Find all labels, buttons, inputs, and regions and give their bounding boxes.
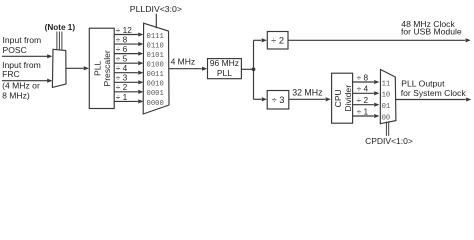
svg-text:CPU: CPU (333, 89, 343, 107)
svg-text:PLL Output: PLL Output (401, 78, 445, 88)
svg-text:8 MHz): 8 MHz) (2, 90, 30, 100)
svg-text:(Note 1): (Note 1) (45, 23, 76, 32)
svg-text:0100: 0100 (147, 62, 164, 70)
svg-text:0011: 0011 (147, 71, 164, 79)
svg-text:10: 10 (382, 92, 391, 100)
svg-text:0111: 0111 (147, 33, 164, 41)
svg-text:PLLDIV<3:0>: PLLDIV<3:0> (130, 4, 182, 14)
svg-text:÷ 3: ÷ 3 (272, 95, 285, 105)
svg-text:÷ 3: ÷ 3 (116, 73, 128, 83)
svg-text:for USB Module: for USB Module (401, 27, 462, 37)
svg-text:11: 11 (382, 80, 391, 88)
svg-text:00: 00 (382, 114, 391, 122)
svg-text:0110: 0110 (147, 42, 164, 50)
svg-text:FRC: FRC (2, 69, 20, 79)
svg-text:for System Clock: for System Clock (401, 88, 467, 98)
svg-text:(4 MHz or: (4 MHz or (2, 81, 40, 91)
svg-text:0001: 0001 (147, 90, 164, 98)
svg-text:÷ 5: ÷ 5 (116, 54, 128, 64)
svg-text:PLL: PLL (217, 68, 232, 78)
svg-text:Divider: Divider (343, 85, 353, 112)
svg-text:÷ 4: ÷ 4 (357, 84, 369, 94)
svg-text:Input from: Input from (3, 35, 42, 45)
svg-text:POSC: POSC (3, 45, 27, 55)
svg-text:÷ 6: ÷ 6 (116, 44, 128, 54)
svg-text:0000: 0000 (147, 100, 164, 108)
svg-text:32 MHz: 32 MHz (292, 87, 322, 97)
svg-text:4 MHz: 4 MHz (171, 57, 196, 67)
svg-text:÷ 1: ÷ 1 (116, 92, 128, 102)
svg-text:÷ 8: ÷ 8 (116, 34, 128, 44)
svg-text:÷ 4: ÷ 4 (116, 63, 128, 73)
svg-text:÷ 1: ÷ 1 (357, 106, 369, 116)
svg-text:01: 01 (382, 103, 391, 111)
svg-text:96 MHz: 96 MHz (210, 58, 239, 68)
svg-text:0101: 0101 (147, 52, 164, 60)
svg-text:÷ 2: ÷ 2 (357, 95, 369, 105)
svg-text:÷ 8: ÷ 8 (357, 72, 369, 82)
svg-text:÷ 12: ÷ 12 (116, 25, 132, 35)
svg-text:÷ 2: ÷ 2 (116, 82, 128, 92)
svg-text:0010: 0010 (147, 81, 164, 89)
svg-text:CPDIV<1:0>: CPDIV<1:0> (365, 136, 413, 146)
svg-text:Prescaler: Prescaler (102, 50, 112, 86)
svg-text:÷ 2: ÷ 2 (271, 36, 284, 46)
